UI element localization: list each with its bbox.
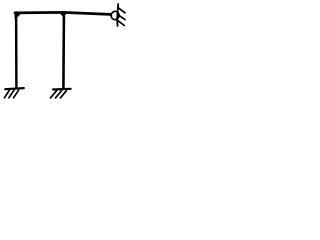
lamp DS1 vertical stroke — [117, 4, 118, 26]
junction T blob — [58, 11, 68, 17]
wire middle vertical — [62, 17, 65, 89]
lamp DS1 ray 3 — [118, 21, 124, 26]
lamp DS1 ray 2 — [119, 15, 126, 20]
lamp DS1 circle — [110, 11, 119, 21]
lamp DS1 ray 1 — [118, 8, 125, 13]
ground GND2 right — [50, 89, 70, 98]
junction corner blob top-left — [14, 11, 22, 19]
wire top horizontal — [15, 12, 110, 14]
ground GND1 left — [4, 88, 23, 98]
wire left vertical — [15, 13, 18, 88]
